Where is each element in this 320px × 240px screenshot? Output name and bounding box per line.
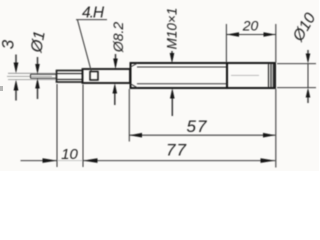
svg-text:20: 20 xyxy=(242,18,259,34)
svg-text:77: 77 xyxy=(166,140,187,159)
svg-text:10: 10 xyxy=(61,146,78,163)
svg-text:57: 57 xyxy=(187,117,208,136)
svg-text:M10×1: M10×1 xyxy=(165,8,180,50)
svg-text:4.H: 4.H xyxy=(82,5,105,22)
svg-text:Ø8.2: Ø8.2 xyxy=(110,22,126,54)
svg-text:3: 3 xyxy=(0,39,18,49)
